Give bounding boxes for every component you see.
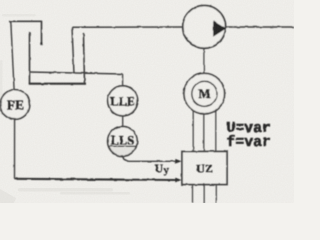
pump P circle [183, 6, 226, 49]
sensor LLE circle [108, 86, 138, 116]
pipe: pump suction from tank [72, 27, 74, 74]
motor M inner circle [192, 81, 217, 106]
wire: pump to motor shaft link [203, 45, 205, 75]
arrowhead into UZ (lower) [175, 178, 181, 183]
wire: inlet downpipe into tank [41, 21, 43, 43]
sensor FE circle [0, 90, 30, 120]
wire: 3-phase below UZ left [192, 185, 194, 204]
tank right wall [84, 34, 85, 85]
wire: LLS output to UZ [123, 155, 176, 161]
frequency converter UZ box [182, 152, 227, 185]
arrowhead into UZ (upper) [175, 159, 181, 164]
wire: sensor drop line through LLE and LLS [122, 74, 124, 156]
wire: 3-phase line middle (motor to UZ) [203, 105, 205, 152]
wire: inlet pipe top horizontal [9, 20, 42, 22]
wire: 3-phase line left (motor to UZ) [192, 98, 194, 152]
LLS chord line [109, 145, 136, 147]
wire: 3-phase below UZ middle [203, 185, 205, 204]
tank left wall [29, 32, 31, 84]
pipe: pump outlet to right edge [226, 26, 294, 28]
pump direction triangle [213, 20, 226, 37]
water level line continuing to level sensors [30, 72, 123, 74]
LLS lower segment shading [109, 146, 137, 155]
tank bottom [29, 83, 86, 85]
node: inlet pipe end dot [40, 43, 43, 46]
sensor LLS circle [108, 127, 138, 157]
scan smudge bottom-left [0, 188, 130, 203]
wire: left feed line down to FE and below to bottom wire [11, 21, 15, 178]
scan smudge top-left [0, 14, 36, 115]
scan noise overlay [0, 0, 294, 203]
pipe: horizontal to pump P [72, 26, 183, 28]
wire: 3-phase line right (motor to UZ) [215, 98, 217, 152]
wire: 3-phase below UZ right [215, 185, 217, 204]
motor M outer circle [184, 73, 225, 114]
wire: bottom signal wire from FE to UZ [15, 179, 177, 180]
